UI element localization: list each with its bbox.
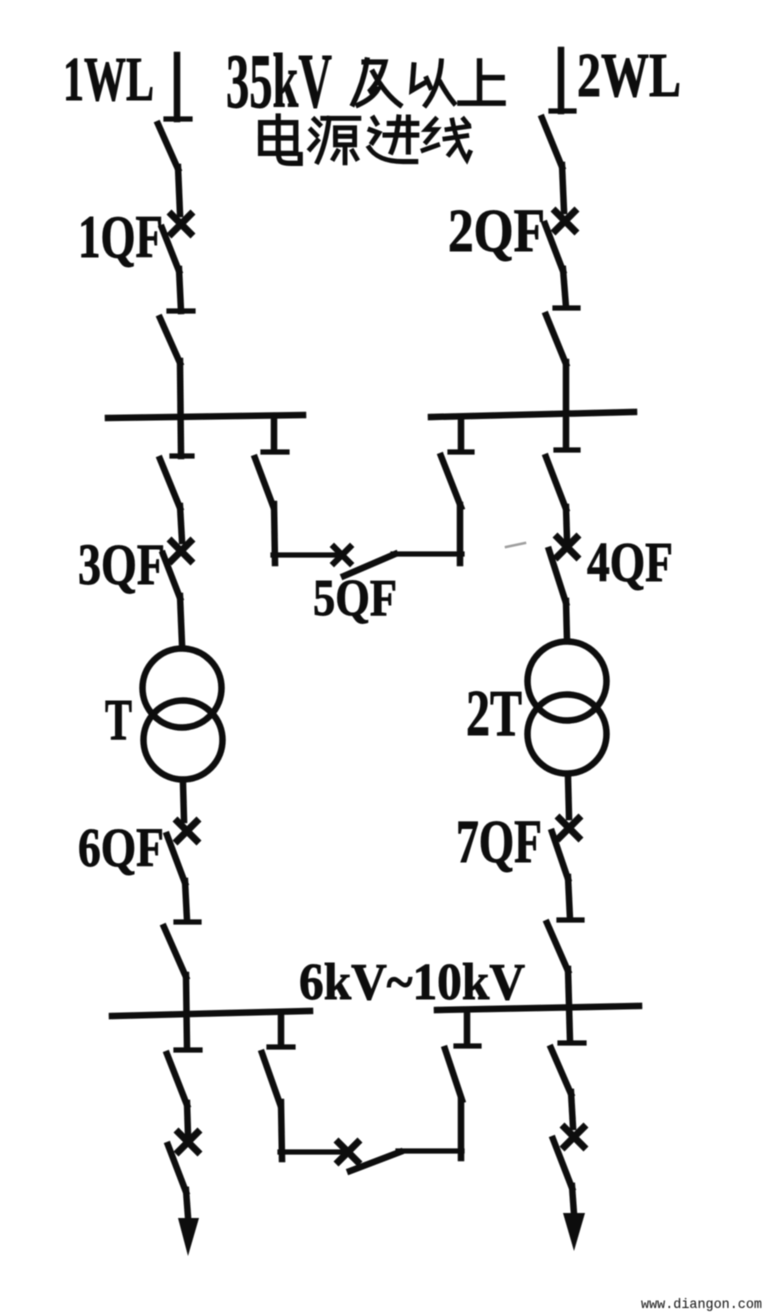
disconnect blade	[547, 923, 568, 971]
wire horizontal from 5QF to right	[393, 551, 462, 556]
wire	[180, 506, 182, 541]
svg-text:2QF: 2QF	[448, 198, 545, 265]
incoming line 1WL wire	[174, 55, 181, 119]
disconnect switch QS4 blade	[546, 315, 566, 364]
tie disconnect blade left	[255, 458, 273, 506]
busbar I left section (35kV)	[108, 415, 303, 418]
tie disconnect blade right	[441, 456, 461, 507]
feeder blade left	[168, 1145, 186, 1192]
lower tie tick right	[456, 1043, 479, 1048]
wire horizontal right	[398, 1148, 462, 1153]
svg-text:6kV~10kV: 6kV~10kV	[299, 954, 525, 1011]
feeder blade right	[553, 1139, 572, 1188]
circuit breaker 1QF (x symbol)	[172, 215, 191, 234]
wire to transformer 2T	[566, 601, 567, 641]
transformer 2T	[528, 642, 607, 721]
disconnect blade below left bus (3QF branch)	[160, 459, 180, 508]
busbar I right section (35kV)	[431, 412, 634, 417]
wire to bus II left	[186, 975, 187, 1048]
disconnect switch QS3 blade	[542, 118, 562, 167]
wire	[562, 165, 564, 211]
circuit breaker 3QF (x symbol)	[172, 542, 191, 561]
lower tie breaker (x symbol)	[339, 1143, 358, 1162]
wire below T	[183, 783, 184, 820]
wire below 2T	[568, 777, 569, 817]
svg-text:35kV: 35kV	[226, 38, 332, 124]
wire	[571, 1092, 573, 1127]
wire to arrow left	[186, 1190, 188, 1217]
breaker 4QF blade	[549, 550, 566, 603]
chinese char JIN (进)	[369, 117, 417, 162]
wire to arrow right	[572, 1186, 574, 1214]
circuit breaker 2QF (x symbol)	[556, 212, 575, 231]
wire to bus I	[180, 361, 181, 456]
disconnect tick	[559, 917, 582, 922]
wire	[568, 877, 570, 919]
busbar II right section (6-10kV)	[437, 1006, 639, 1010]
lower tie tick left	[269, 1044, 293, 1049]
chinese char YUAN (源)	[310, 118, 359, 163]
circuit breaker 7QF (x symbol)	[560, 819, 579, 838]
breaker 7QF blade	[552, 832, 568, 879]
svg-text:5QF: 5QF	[313, 570, 397, 627]
svg-text:2WL: 2WL	[577, 42, 681, 110]
chinese char XIAN (线)	[423, 119, 470, 160]
disconnect switch QS2 blade	[160, 318, 180, 363]
wire	[185, 881, 187, 920]
feeder disconnect blade left	[167, 1054, 187, 1105]
svg-text:www.diangon.com: www.diangon.com	[641, 1297, 762, 1313]
breaker 5QF open blade	[344, 554, 395, 576]
svg-text:3QF: 3QF	[78, 532, 165, 597]
svg-text:1WL: 1WL	[63, 46, 154, 114]
svg-text:T: T	[105, 687, 132, 752]
disconnect tick	[176, 919, 199, 924]
feeder breaker right (x symbol)	[565, 1128, 584, 1147]
wire to bus II right	[568, 969, 570, 1041]
breaker 1QF blade	[162, 228, 179, 271]
tick below bus II left	[176, 1047, 200, 1052]
svg-text:1QF: 1QF	[78, 204, 163, 270]
feeder breaker left (x symbol)	[179, 1133, 198, 1152]
wire	[563, 269, 566, 307]
transformer T	[143, 649, 222, 728]
chinese char JI (及)	[353, 60, 400, 105]
svg-text:6QF: 6QF	[78, 817, 164, 878]
wire	[274, 504, 275, 563]
disconnect blade below right bus	[546, 457, 566, 509]
chinese char YI (以)	[412, 61, 454, 105]
bus tie drop wire left	[271, 420, 278, 451]
wire	[187, 1103, 188, 1135]
breaker 6QF blade	[167, 835, 185, 883]
chinese char SHANG (上)	[460, 61, 503, 103]
tick below bus I right	[556, 447, 578, 452]
wire to transformer T	[180, 596, 182, 644]
wire horizontal to 5QF	[273, 552, 338, 557]
disconnect switch QS4 contact tick	[555, 305, 578, 310]
disconnect switch QS3 contact tick	[551, 108, 574, 113]
bus tie breaker 5QF (x symbol)	[334, 547, 350, 563]
wire vertical up	[458, 1100, 465, 1158]
scan artifact faint dash	[506, 543, 525, 547]
incoming line 2WL wire	[558, 50, 565, 111]
svg-text:4QF: 4QF	[587, 532, 673, 594]
wire	[281, 1102, 282, 1159]
svg-text:7QF: 7QF	[456, 809, 542, 876]
lower tie blade right	[445, 1049, 462, 1100]
feeder disconnect blade right	[551, 1048, 571, 1094]
disconnect switch QS1 contact tick	[166, 116, 190, 121]
tick below bus I left	[172, 453, 192, 458]
feeder arrow left	[178, 1218, 199, 1256]
disconnect blade	[164, 927, 186, 977]
wire	[179, 269, 181, 311]
feeder arrow right	[563, 1213, 585, 1251]
disconnect switch QS1 blade	[158, 124, 178, 169]
tie disconnect tick right	[450, 449, 472, 454]
wire to bus I right	[563, 362, 570, 449]
tie drop wire right	[458, 418, 465, 451]
lower tie open blade	[350, 1152, 400, 1171]
disconnect switch QS2 contact tick	[169, 308, 193, 313]
busbar II left section (6-10kV)	[112, 1011, 310, 1016]
lower tie drop wire right	[464, 1011, 471, 1044]
chinese char DIAN (电)	[261, 116, 301, 163]
wire horizontal to lower tie breaker	[280, 1149, 344, 1154]
lower tie blade left	[262, 1053, 280, 1104]
lower tie drop wire left	[278, 1014, 285, 1045]
circuit breaker 6QF (x symbol)	[178, 822, 197, 841]
wire vertical up	[457, 505, 464, 563]
breaker 3QF blade	[163, 554, 180, 598]
circuit breaker 4QF (x symbol)	[558, 538, 577, 557]
svg-text:2T: 2T	[466, 677, 522, 750]
tie disconnect tick left	[263, 449, 287, 454]
wire	[566, 507, 567, 540]
breaker 2QF blade	[545, 224, 563, 271]
wire	[178, 167, 180, 214]
tick below bus II right	[560, 1040, 584, 1045]
